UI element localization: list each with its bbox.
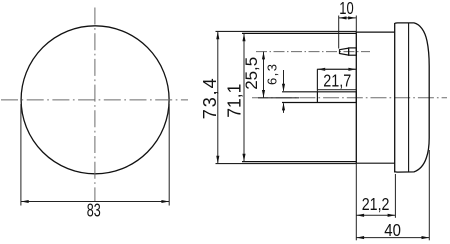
dim 21,7 arrow left [317, 68, 325, 71]
lens left face [394, 23, 396, 173]
dim 10 arrow right [348, 16, 356, 19]
dim 83 arrow right [161, 200, 169, 203]
dim 73,4 arrow bottom [216, 156, 219, 164]
dim 25,5 arrow top [262, 52, 265, 60]
dim 25,5 arrow bottom [262, 90, 265, 98]
lens outline circle [21, 26, 169, 174]
dim 83 line [21, 201, 169, 203]
housing bottom rim edge (73,4) with extension [216, 163, 357, 165]
mounting tab wedge [340, 48, 349, 55]
housing bottom edge (71,1) with extension [242, 161, 356, 163]
dim 21,2 line [356, 214, 395, 216]
extension lens right face down (for 40) [428, 150, 430, 240]
dim 71,1 arrow bottom [242, 154, 245, 162]
svg-text:71,1: 71,1 [225, 84, 245, 118]
gasket top edge [356, 31, 394, 33]
dim 83 arrow left [21, 200, 29, 203]
svg-text:83: 83 [87, 201, 101, 221]
lens parting line [408, 23, 410, 173]
svg-text:21,7: 21,7 [323, 70, 351, 90]
dim 40 line [356, 237, 429, 239]
dim 6,3 lower shaft [283, 103, 285, 113]
dim 71,1 line [243, 33, 245, 161]
svg-text:21,2: 21,2 [362, 194, 390, 214]
dim 71,1 arrow top [242, 33, 245, 41]
bulb holder step line [316, 92, 318, 103]
svg-text:6,3: 6,3 [265, 64, 280, 85]
dim 10 arrow left [339, 16, 347, 19]
dim 21,2 arrow right [388, 214, 396, 217]
housing top rim edge (73,4) with extension [216, 30, 357, 32]
mounting tab body [349, 48, 357, 55]
bulb holder tube [282, 92, 356, 103]
svg-text:10: 10 [339, 0, 354, 18]
housing right edge [355, 31, 357, 163]
dim 21,7 arrow right [348, 68, 356, 71]
dim 83 extension right [168, 104, 170, 206]
lens dome outline [395, 23, 430, 172]
svg-text:73,4: 73,4 [200, 78, 220, 119]
dim 21,7 frame box [317, 69, 356, 89]
dim 73,4 line [217, 31, 219, 163]
tab centerline [256, 51, 370, 53]
main horizontal centerline [252, 97, 447, 99]
extension housing edge down (for 21,2 / 40) [355, 164, 357, 241]
dim 10 right extension / housing edge extension up [355, 16, 357, 32]
dim 6,3 arrow up [282, 103, 285, 111]
dim 25,5 line [263, 52, 265, 98]
dim 10 line [339, 17, 356, 19]
dim 73,4 arrow top [216, 31, 219, 39]
dim 10 left extension [338, 16, 340, 49]
dim 40 arrow right [422, 236, 430, 239]
svg-text:40: 40 [384, 220, 401, 240]
dim 21,7 line [317, 68, 356, 70]
dim 21,2 arrow left [356, 214, 364, 217]
svg-text:25,5: 25,5 [243, 57, 261, 90]
horizontal centerline [1, 99, 188, 101]
vertical centerline [94, 8, 96, 202]
extension lens left face down (for 21,2) [394, 174, 396, 218]
housing top edge (71,1) with extension [242, 32, 356, 34]
dim 6,3 upper shaft [283, 70, 285, 91]
dim 40 arrow left [356, 236, 364, 239]
gasket bottom edge [356, 162, 394, 164]
centerline solid segment [258, 97, 299, 99]
dim 21,7 left extension [316, 69, 318, 92]
dim 6,3 arrow down [282, 84, 285, 92]
dim 83 extension left [20, 104, 22, 206]
